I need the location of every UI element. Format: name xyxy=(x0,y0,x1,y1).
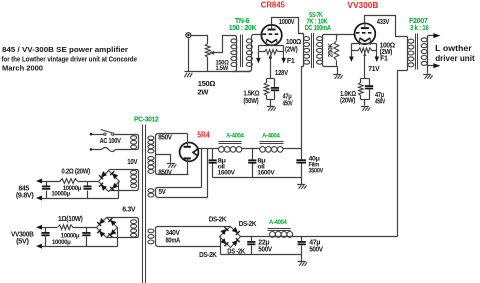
D2 right corner drop to bottom wire xyxy=(117,228,119,247)
SS-7K primary winding xyxy=(304,37,310,65)
bridge D2 diode b xyxy=(110,220,116,226)
5V winding tap wire b xyxy=(207,149,209,198)
cathode cap C2 wire bottom xyxy=(369,90,371,100)
svg-text:6.3V: 6.3V xyxy=(122,207,136,214)
845 filament left arrow xyxy=(256,58,261,64)
mains terminal dot N xyxy=(90,148,93,151)
svg-text:F1: F1 xyxy=(380,56,388,63)
HV filter ground rail xyxy=(213,177,302,179)
845 cathode top stub xyxy=(267,78,275,80)
rectifier tube V3 5R4 xyxy=(180,143,199,162)
filter cap C8 8u second xyxy=(248,149,256,178)
output arrow plus xyxy=(433,33,440,38)
svg-text:3 k : 16: 3 k : 16 xyxy=(410,25,429,32)
op tube V1 845 triode xyxy=(261,25,281,46)
hum pot R5 100ohm body xyxy=(358,48,371,53)
TN-6 primary spine+leads xyxy=(233,36,237,72)
5V winding tap wire a xyxy=(201,149,203,188)
power switch SW1 xyxy=(101,129,114,135)
svg-text:500V: 500V xyxy=(258,247,272,254)
wire wiper to TN-6 primary top xyxy=(210,36,233,53)
845 filament left drop xyxy=(258,46,260,59)
SS-7K ground drop xyxy=(337,67,339,75)
hum pot left stub xyxy=(259,51,265,53)
300B filament left arrow xyxy=(349,57,354,63)
340V winding spine+leads xyxy=(156,227,231,247)
300B supply bottom wire xyxy=(42,246,118,248)
bridge D2 diode d xyxy=(110,229,116,235)
svg-text:driver unit: driver unit xyxy=(435,54,475,63)
svg-text:5V: 5V xyxy=(159,189,167,196)
choke L3 core lines xyxy=(268,229,291,231)
SS-7K primary top lead xyxy=(299,33,304,35)
cathode cap C2 47u wire top xyxy=(369,79,371,86)
svg-text:DS-2K: DS-2K xyxy=(209,217,227,224)
cathode cap C1 47u wire top xyxy=(274,79,276,88)
300B cathode drop wire xyxy=(364,53,366,79)
svg-text:A-4004: A-4004 xyxy=(226,132,244,139)
svg-text:VV300B: VV300B xyxy=(11,231,34,238)
svg-text:(5V): (5V) xyxy=(16,239,29,246)
svg-text:450V: 450V xyxy=(283,100,293,107)
PC-3012 core xyxy=(143,125,146,283)
bridge D3 diode a xyxy=(220,229,226,235)
SS-7K secondary top lead to grid xyxy=(323,35,355,36)
R3 top stub xyxy=(266,79,268,83)
5R4 top plate wire xyxy=(187,134,189,147)
TN-6 base wire xyxy=(233,71,251,73)
svg-text:(9.8V): (9.8V) xyxy=(16,192,34,199)
TN-6 core xyxy=(241,35,243,68)
845 cathode ground symbol xyxy=(267,107,276,111)
845 supply top wire xyxy=(42,181,99,183)
845 filament top wire xyxy=(259,45,284,47)
choke L3 loops xyxy=(270,232,293,238)
svg-text:845 / VV-300B SE power amplifi: 845 / VV-300B SE power amplifier xyxy=(2,45,128,54)
svg-text:(50W): (50W) xyxy=(243,98,258,105)
bridge rectifier D3 diamond xyxy=(220,227,241,248)
svg-text:A-4004: A-4004 xyxy=(269,219,287,226)
R3 bottom stub xyxy=(266,96,268,100)
hum pot wiper arrow xyxy=(269,54,272,57)
svg-text:3500V: 3500V xyxy=(309,168,324,175)
300B filament right drop xyxy=(376,44,378,57)
svg-text:150 : 20K: 150 : 20K xyxy=(229,25,257,32)
6.3V winding spine+leads xyxy=(108,218,139,238)
cap C6 10000u right xyxy=(82,228,90,247)
SS-7K secondary spine xyxy=(322,36,324,65)
F2007 secondary spine xyxy=(427,36,429,66)
850V winding spine+leads xyxy=(156,134,189,175)
TN-6 primary winding xyxy=(231,39,237,67)
grid resistor R4 250K top stub xyxy=(336,35,338,41)
F2007 secondary bottom lead xyxy=(428,65,434,67)
svg-text:AC 100V: AC 100V xyxy=(100,138,122,145)
R4 bottom stub xyxy=(336,61,338,67)
300B cathode top stub xyxy=(361,78,370,80)
bridge D1 diode d xyxy=(112,183,118,189)
svg-text:0.2Ω (20W): 0.2Ω (20W) xyxy=(61,168,90,175)
svg-text:CR845: CR845 xyxy=(261,1,286,10)
choke L2 loops xyxy=(260,147,283,153)
svg-text:VV300B: VV300B xyxy=(347,1,378,10)
845 filament right arrow xyxy=(281,58,286,64)
svg-text:250K: 250K xyxy=(327,43,334,58)
svg-text:1.5W: 1.5W xyxy=(216,65,229,72)
svg-text:71V: 71V xyxy=(368,66,380,73)
AC primary winding loops xyxy=(131,136,137,149)
5R4 bottom plate wire xyxy=(187,159,189,175)
bridge rectifier D1 diamond xyxy=(99,171,120,192)
bridge D1 diode a xyxy=(101,171,107,177)
bridge D2 diode c xyxy=(99,231,105,237)
300B cathode ground symbol xyxy=(361,107,370,111)
845 supply output arrow top xyxy=(36,179,42,184)
F2007 primary bottom lead to B+ wire xyxy=(398,71,408,237)
svg-text:L owther: L owther xyxy=(435,44,472,53)
cap C10 22u xyxy=(247,237,255,255)
bridge D1 diode c xyxy=(101,185,107,191)
svg-text:10V: 10V xyxy=(127,159,138,166)
bridge D3 diode c xyxy=(220,238,226,244)
cathode resistor R3 1.5K body xyxy=(264,82,269,95)
wire switch to AC primary xyxy=(115,134,137,136)
SS-7K secondary winding xyxy=(317,37,323,65)
filter cap C9 40u film xyxy=(296,149,306,185)
D3 left corner drop wire xyxy=(220,237,222,255)
output arrow minus xyxy=(433,63,440,68)
850V winding loops lower xyxy=(148,156,154,173)
choke L1 loops xyxy=(219,147,242,153)
5V winding loops xyxy=(148,189,154,197)
10V winding loops xyxy=(131,170,137,187)
845 filament right drop xyxy=(283,46,285,59)
svg-text:10000μ: 10000μ xyxy=(52,239,71,246)
wire jack down to ground rail xyxy=(188,39,190,72)
300B supply output arrow top xyxy=(36,225,42,230)
svg-text:(2W): (2W) xyxy=(285,47,298,54)
DS-2K plus rail xyxy=(241,236,398,238)
R5 wiper arrow xyxy=(363,53,366,56)
cap C11 47u 500V xyxy=(298,237,306,255)
hum pot R5 right stub xyxy=(372,50,377,52)
wire pot bottom to ground rail xyxy=(207,58,209,72)
hum pot R2 100ohm body xyxy=(264,50,278,55)
R6 top stub xyxy=(360,79,362,83)
svg-text:5R4: 5R4 xyxy=(197,131,210,140)
bridge D3 diode d xyxy=(232,240,238,246)
svg-text:1.5KΩ: 1.5KΩ xyxy=(243,90,259,97)
300B plate wire to F2007 xyxy=(365,16,408,37)
choke L1 core lines xyxy=(219,142,242,144)
300B cathode bottom stub xyxy=(361,99,370,101)
300B cathode ground drop xyxy=(364,100,366,106)
SS-7K primary spine+leads xyxy=(303,34,305,67)
845 supply output arrow bottom xyxy=(36,196,42,201)
F2007 core xyxy=(416,34,418,70)
DS-2K ground drop xyxy=(301,255,303,262)
input ground symbol xyxy=(184,73,192,78)
svg-text:850V: 850V xyxy=(158,135,172,142)
op tube V2 300B triode xyxy=(355,23,376,45)
TN-6 secondary winding xyxy=(246,39,252,67)
300B supply output arrow bottom xyxy=(36,244,42,249)
cathode resistor R6 1.0K body xyxy=(359,82,364,96)
hum pot right stub xyxy=(279,51,284,53)
svg-text:(20W): (20W) xyxy=(340,98,355,105)
choke L2 core lines xyxy=(260,142,284,144)
wiper junction dot xyxy=(269,56,272,59)
svg-text:340V: 340V xyxy=(166,230,181,237)
svg-text:1Ω(10W): 1Ω(10W) xyxy=(58,216,83,223)
6.3V winding loops xyxy=(131,220,137,237)
pot wiper arrow xyxy=(210,51,215,55)
mains terminal dot L xyxy=(90,133,93,136)
series resistor R7 0.2ohm body xyxy=(60,179,78,184)
340V winding loops xyxy=(148,229,154,244)
svg-text:1000V: 1000V xyxy=(279,19,295,26)
845 cathode drop wire xyxy=(270,55,272,79)
F2007 secondary winding xyxy=(421,38,427,66)
HV filter ground symbol xyxy=(297,185,306,189)
B+ rail from 5R4 xyxy=(199,148,219,150)
svg-text:1600V: 1600V xyxy=(257,170,275,177)
cathode cap C1 wire bottom xyxy=(274,92,276,100)
845 cathode ground drop xyxy=(270,100,272,107)
filter cap C7 8u first xyxy=(209,149,217,178)
svg-text:A-4004: A-4004 xyxy=(262,132,280,139)
bridge rectifier D2 diamond xyxy=(97,218,118,238)
bridge D3 diode b xyxy=(232,227,238,233)
F2007 primary winding xyxy=(408,39,414,67)
10V winding spine+leads xyxy=(110,170,139,191)
B+ rail to 40u cap node xyxy=(283,148,302,150)
cap C4 10000u right xyxy=(83,182,91,199)
300B filament top wire xyxy=(352,43,377,45)
850V winding loops upper xyxy=(148,136,154,153)
wire jack to pot top xyxy=(192,36,208,44)
F2007 secondary ground symbol xyxy=(423,75,432,79)
input jack J1 xyxy=(186,33,191,38)
D1 right corner drop to bottom wire xyxy=(118,182,120,199)
svg-text:128V: 128V xyxy=(275,70,289,77)
svg-text:DC 100mA: DC 100mA xyxy=(305,25,331,32)
845 grid wire xyxy=(262,34,264,36)
845 supply bottom wire xyxy=(42,198,119,200)
series resistor R8 1ohm body xyxy=(58,225,73,230)
wire fuse to AC primary xyxy=(116,149,137,151)
SS-7K primary bottom lead to B+ xyxy=(302,67,304,149)
B+ rail between chokes xyxy=(242,148,260,150)
svg-text:500V: 500V xyxy=(309,247,323,254)
850V center tap ground symbol xyxy=(167,164,176,168)
svg-text:DS-2K: DS-2K xyxy=(239,221,257,228)
bridge D1 diode b xyxy=(112,173,118,179)
wire mains N to fuse xyxy=(92,149,102,151)
wire mains L to switch xyxy=(92,134,104,136)
5V winding spine+leads xyxy=(156,188,208,198)
300B supply top wire xyxy=(42,227,97,229)
DS-2K ground symbol xyxy=(298,262,307,266)
cathode cap C1 plates xyxy=(271,88,279,90)
svg-text:2W: 2W xyxy=(197,88,209,97)
cap C3 10000u left xyxy=(42,182,50,199)
F2007 primary spine xyxy=(407,37,409,71)
D1 top corner to 10V winding wire xyxy=(109,170,110,171)
svg-text:F1: F1 xyxy=(287,58,295,65)
D2 top corner to 6.3V winding wire xyxy=(107,217,108,219)
R6 bottom stub xyxy=(360,96,362,100)
845 plate wire to SS-7K xyxy=(272,18,304,34)
svg-text:10000μ: 10000μ xyxy=(51,190,70,197)
svg-text:433V: 433V xyxy=(377,19,390,26)
SS-7K core xyxy=(312,33,314,68)
svg-text:100Ω: 100Ω xyxy=(286,39,302,46)
D2 bottom corner to winding wire xyxy=(107,237,108,239)
svg-text:PC-3012: PC-3012 xyxy=(134,117,159,124)
grid resistor R4 250K body xyxy=(334,41,339,60)
cathode cap C2 plates xyxy=(365,86,373,88)
845 cathode bottom stub xyxy=(267,99,275,101)
potentiometer VR1 150ohm body xyxy=(205,44,210,58)
svg-text:for the Lowther vintage driver: for the Lowther vintage driver unit at C… xyxy=(2,54,138,63)
cap C5 10000u left xyxy=(41,228,49,247)
svg-text:(2W): (2W) xyxy=(380,49,393,56)
svg-text:March 2000: March 2000 xyxy=(2,64,43,73)
mains fuse wave xyxy=(102,148,116,152)
svg-text:DS-2K: DS-2K xyxy=(199,252,217,259)
svg-text:850V: 850V xyxy=(158,169,172,176)
bridge D2 diode a xyxy=(99,218,105,224)
F2007 secondary ground drop xyxy=(427,66,429,74)
SS-7K secondary ground symbol xyxy=(333,75,342,79)
AC primary spine xyxy=(137,135,139,150)
DS-2K minus rail xyxy=(221,254,302,256)
D1 bottom corner to winding wire xyxy=(108,191,110,192)
hum pot R5 left stub xyxy=(352,50,359,52)
svg-text:1600V: 1600V xyxy=(218,170,236,177)
SS-7K secondary bottom lead xyxy=(323,65,338,67)
TN-6 secondary spine+leads xyxy=(247,35,262,72)
svg-text:450V: 450V xyxy=(375,99,385,106)
300B filament right arrow xyxy=(375,57,380,63)
input ground rail wire xyxy=(185,71,251,73)
850V center tap wire xyxy=(156,155,171,163)
F2007 secondary top lead xyxy=(428,35,434,37)
300B filament left drop xyxy=(351,44,353,57)
svg-text:80mA: 80mA xyxy=(166,237,181,244)
